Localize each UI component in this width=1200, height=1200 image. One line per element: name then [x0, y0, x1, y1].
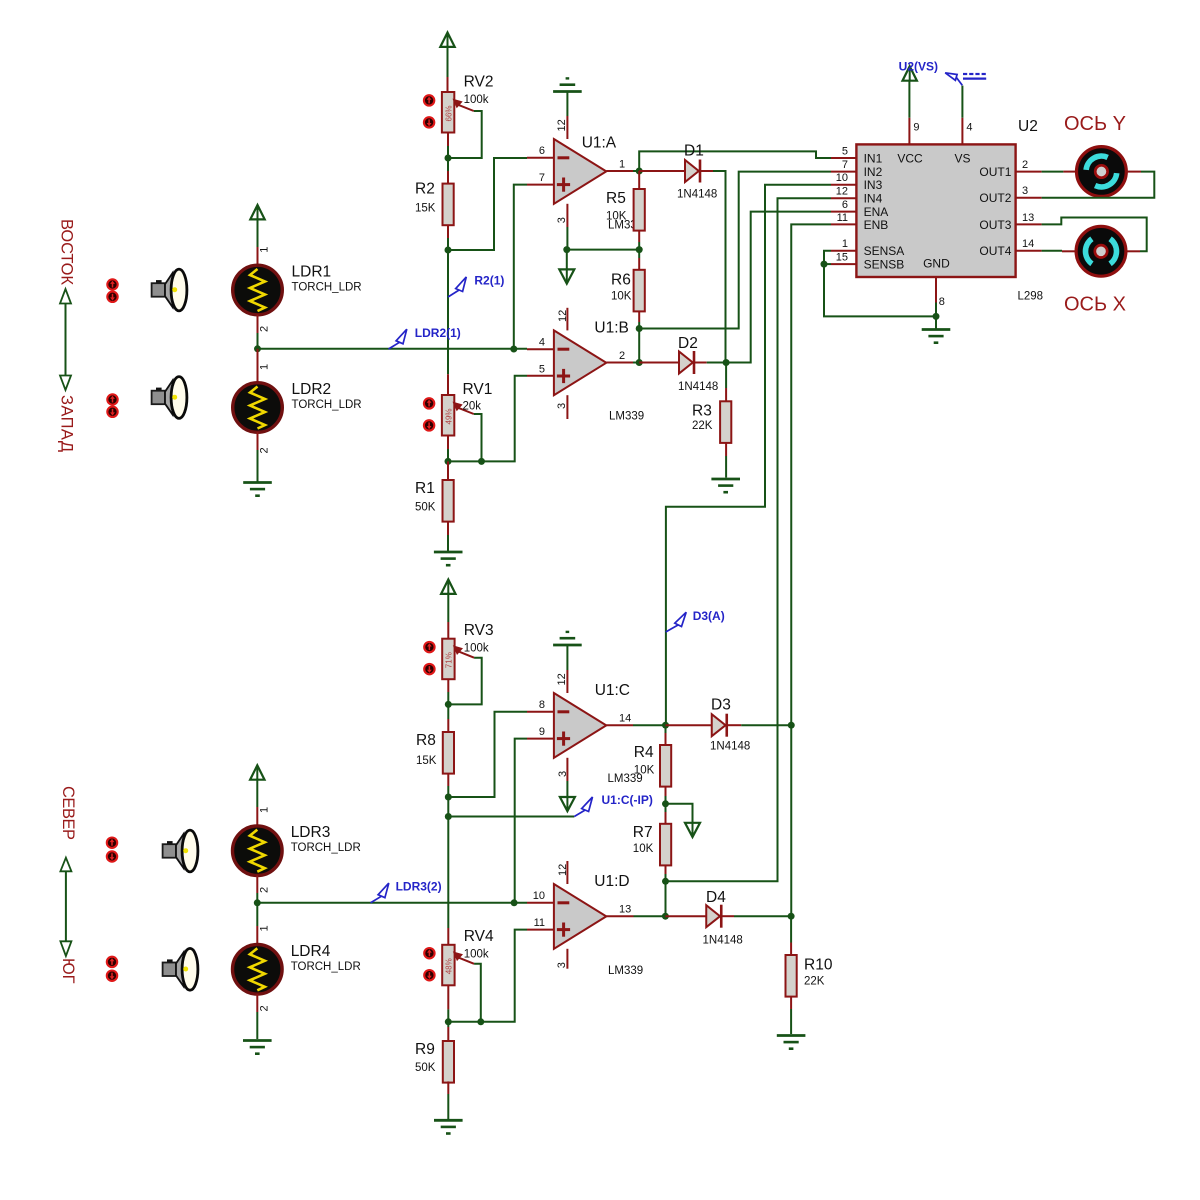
pin U2.4 VS — [961, 118, 963, 145]
pin LDR1.2 — [257, 315, 259, 334]
pin U2 10 stub — [831, 184, 856, 186]
wire U1:C pin9 to LDR node — [515, 739, 527, 903]
svg-text:10K: 10K — [633, 843, 654, 855]
net label U2(VS) — [899, 60, 963, 86]
wire R4 to node — [665, 796, 667, 804]
pin U1:C.3 — [566, 758, 568, 781]
wire D1 cathode to OR node — [713, 171, 726, 363]
pin LDR2.1 — [257, 349, 259, 383]
wire R6 node to U1:B output — [638, 329, 640, 363]
torch lamp for LDR1 — [152, 269, 187, 311]
svg-text:6: 6 — [539, 145, 545, 157]
wire LDR3 top supply — [256, 779, 258, 808]
LDR LDR4 (TORCH_LDR) — [232, 943, 360, 994]
svg-text:4: 4 — [539, 337, 545, 349]
pin number 6 of U2 — [842, 199, 848, 211]
svg-text:U2: U2 — [1018, 118, 1038, 135]
svg-text:R9: R9 — [415, 1041, 435, 1058]
svg-text:15: 15 — [836, 252, 848, 264]
net label D3(A) — [666, 609, 725, 632]
pin number 2 of LDR3 — [259, 887, 271, 893]
pin number 13 of U2 — [1022, 212, 1034, 224]
torch 3 brightness buttons — [107, 838, 117, 862]
svg-text:50K: 50K — [415, 502, 436, 514]
wire node to U1:D pin 11 — [481, 930, 527, 1022]
svg-text:1: 1 — [259, 247, 271, 253]
pin R5.1 — [638, 171, 640, 189]
pin R3.2 — [725, 443, 727, 456]
junction R7 bottom / IN4 net — [662, 878, 669, 885]
svg-text:R7: R7 — [633, 824, 653, 841]
wire node down to RV1 — [447, 250, 449, 374]
pin number 7 of U2 — [842, 159, 848, 171]
pin U1:C.9 stub — [527, 738, 554, 740]
wire IN2 net — [639, 172, 831, 329]
power terminal above RV2 — [440, 33, 454, 47]
torch lamp for LDR3 — [163, 830, 198, 872]
pin D4 cathode — [721, 915, 734, 917]
wire R1 to ground — [447, 535, 449, 551]
pin U2 11 stub — [831, 223, 856, 225]
pin LDR1.1 — [257, 247, 259, 266]
pin number 1 of LDR3 — [259, 807, 271, 813]
svg-text:7: 7 — [842, 159, 848, 171]
svg-text:R2: R2 — [415, 181, 435, 198]
wire R7 node to U1:D output — [665, 881, 667, 916]
svg-text:OUT4: OUT4 — [979, 244, 1011, 258]
svg-text:1N4148: 1N4148 — [678, 381, 718, 393]
pin motor X right — [1126, 250, 1140, 252]
svg-text:VS: VS — [954, 151, 970, 165]
negative rail arrow at R4/R7 node — [685, 823, 700, 837]
pin U2 12 stub — [831, 197, 856, 199]
svg-text:TORCH_LDR: TORCH_LDR — [291, 842, 361, 854]
svg-text:RV1: RV1 — [463, 381, 493, 398]
pin R2.2 — [447, 225, 449, 238]
svg-text:IN2: IN2 — [864, 165, 883, 179]
pin number 3 of U1:B — [556, 403, 568, 409]
pin U2 7 stub — [831, 171, 856, 173]
svg-text:IN3: IN3 — [864, 178, 883, 192]
svg-text:15K: 15K — [415, 203, 436, 215]
wire RV3 to node — [447, 692, 449, 704]
svg-text:50K: 50K — [415, 1062, 436, 1074]
pin D3 anode — [666, 724, 712, 726]
LDR LDR3 (TORCH_LDR) — [232, 824, 360, 876]
svg-text:2: 2 — [259, 887, 271, 893]
wire IN3 net (U1:C output) — [666, 185, 831, 725]
pin U1:C.12 — [566, 670, 568, 693]
wire RV1 to node — [447, 449, 449, 461]
junction LDR divider node — [254, 345, 261, 352]
wire GND pin to ground — [935, 303, 937, 330]
wire out node to R4 — [665, 725, 667, 733]
svg-text:22K: 22K — [804, 976, 825, 988]
svg-text:R6: R6 — [611, 272, 631, 289]
junction RV4/R9 node — [445, 1018, 452, 1025]
svg-text:12: 12 — [557, 864, 569, 876]
wire D3 cathode to ENB net — [741, 724, 791, 726]
svg-text:ЗАПАД: ЗАПАД — [58, 395, 76, 452]
pin RV2.1 — [447, 77, 449, 92]
pin U2.9 VCC — [908, 118, 910, 145]
svg-text:R5: R5 — [606, 190, 626, 207]
pin R2.1 — [447, 171, 449, 184]
svg-text:R1: R1 — [415, 480, 435, 497]
junction D1/D2 OR node — [723, 359, 730, 366]
wire RV3 wiper — [448, 658, 481, 705]
pin U1:A.7 stub — [527, 184, 554, 186]
wire node to R9 — [447, 1022, 449, 1027]
svg-text:10: 10 — [836, 172, 848, 184]
svg-text:3: 3 — [556, 217, 568, 223]
svg-text:ОСЬ Y: ОСЬ Y — [1064, 113, 1126, 135]
pin number 1 of LDR4 — [259, 925, 271, 931]
wire node down to R2 — [447, 158, 449, 171]
pin LDR4.2 — [256, 994, 258, 1012]
svg-text:TORCH_LDR: TORCH_LDR — [292, 282, 362, 294]
pin number 14 of U2 — [1022, 238, 1034, 250]
wire LDR3-LDR4 node — [256, 893, 258, 903]
label LM339 of U1:A (partly hidden) — [608, 220, 643, 232]
wire U1:C pin3 stem — [566, 781, 568, 797]
pin number 11 of U2 — [837, 212, 848, 224]
pin number 9 of U1:C — [539, 726, 545, 738]
wire RV4 node segment — [448, 1021, 481, 1023]
pin R1.2 — [447, 522, 449, 535]
svg-text:1N4148: 1N4148 — [703, 935, 743, 947]
junction R8 bottom (to pin 8) — [445, 794, 452, 801]
wire LDR node to U1:B pin 4 — [258, 348, 528, 350]
pin number 8 of U1:C — [539, 699, 545, 711]
svg-text:49%: 49% — [444, 408, 453, 424]
svg-text:9: 9 — [539, 726, 545, 738]
pin number 1 of LDR1 — [259, 247, 271, 253]
svg-text:RV2: RV2 — [464, 74, 494, 91]
svg-text:SENSA: SENSA — [864, 244, 905, 258]
svg-text:ОСЬ X: ОСЬ X — [1064, 294, 1126, 316]
label LM339 of U1:C — [608, 773, 643, 785]
pin RV4.1 — [447, 928, 449, 945]
svg-text:LDR2: LDR2 — [292, 381, 332, 398]
svg-text:R4: R4 — [634, 744, 654, 761]
wire node to LDR4 — [256, 903, 258, 926]
svg-text:LM339: LM339 — [609, 411, 644, 423]
pin LDR3.1 — [256, 807, 258, 826]
power terminal U2 VCC — [903, 66, 917, 80]
wire R2 to node — [447, 238, 449, 250]
pin number 3 of U1:C — [557, 771, 569, 777]
svg-text:LM339: LM339 — [608, 965, 643, 977]
potentiometer RV4 100k (48%) — [442, 928, 494, 985]
pin U1:C.8 stub — [527, 711, 554, 713]
pin U1:D.3 — [566, 949, 568, 969]
pin D4 anode — [665, 915, 706, 917]
wire R6 to node — [638, 322, 640, 329]
ground below U2 — [922, 330, 951, 343]
svg-text:R3: R3 — [692, 403, 712, 420]
wire U1:A out to junction — [633, 170, 639, 172]
motor Y axis motor — [1077, 147, 1127, 197]
svg-text:2: 2 — [259, 447, 271, 453]
svg-text:1N4148: 1N4148 — [710, 741, 750, 753]
ground below R3 — [711, 479, 740, 492]
svg-text:10K: 10K — [611, 291, 632, 303]
wire OUT1 to motor Y — [1042, 171, 1064, 173]
pin U2 1 stub — [831, 250, 856, 252]
label ЮГ (south) — [59, 958, 77, 984]
pin number 4 of U1:B — [539, 337, 545, 349]
pin U1:B.4 stub — [527, 348, 554, 350]
resistor R5 — [606, 189, 645, 231]
ground terminal above U1:C pin 12 — [553, 632, 582, 645]
pin number 2 of LDR2 — [259, 447, 271, 453]
ground below LDR4 — [243, 1041, 272, 1054]
svg-text:L298: L298 — [1018, 291, 1044, 303]
label СЕВЕР (north) — [59, 786, 77, 840]
LDR LDR2 (TORCH_LDR) — [233, 381, 362, 432]
torch lamp for LDR4 — [163, 948, 198, 990]
wire ref node to U1:A pin 6 — [448, 158, 527, 250]
net label R2(1) — [448, 274, 504, 297]
wire RV4 to node — [447, 1009, 449, 1021]
label LM339 of U1:D — [608, 965, 643, 977]
wire R10 to ground — [790, 1009, 792, 1034]
pin number 3 of U2 — [1022, 185, 1028, 197]
wire R5 to node — [638, 242, 640, 250]
wire R7 to node — [665, 874, 667, 881]
svg-text:TORCH_LDR: TORCH_LDR — [291, 961, 361, 973]
wire U1:A pin7 to LDR node — [514, 185, 527, 349]
svg-text:10K: 10K — [634, 765, 655, 777]
ground below R1 — [434, 552, 463, 565]
svg-text:LDR3(2): LDR3(2) — [396, 880, 442, 894]
pin number 3 of U1:A — [556, 217, 568, 223]
negative rail arrow below U1:A — [559, 269, 574, 283]
pin number 9 of U2 — [913, 122, 919, 134]
pin LDR4.1 — [256, 926, 258, 945]
wire R3 to ground — [725, 456, 727, 478]
svg-text:R2(1): R2(1) — [474, 274, 504, 288]
svg-text:1N4148: 1N4148 — [677, 189, 717, 201]
pin number 2 of U2 — [1022, 159, 1028, 171]
IC U2 L298 body — [856, 118, 1043, 303]
svg-text:7: 7 — [539, 172, 545, 184]
label ОСЬ Y — [1064, 113, 1126, 135]
svg-text:IN4: IN4 — [864, 192, 883, 206]
pin R1.1 — [447, 461, 449, 480]
RV3 increment button — [424, 642, 434, 652]
pin R4.1 — [665, 733, 667, 745]
pin U2 13 stub — [1016, 223, 1042, 225]
wire SENSA — [824, 251, 831, 264]
pin R7.1 — [665, 812, 667, 824]
pin U1:B.12 — [566, 308, 568, 331]
wire R8 to node — [447, 786, 449, 797]
svg-text:OUT2: OUT2 — [979, 191, 1011, 205]
wire VS supply — [961, 86, 963, 118]
diode D1 1N4148 — [677, 143, 717, 201]
pin RV4.2 — [447, 985, 449, 1009]
pin U1:A.3 — [566, 204, 568, 227]
power terminal above RV3 — [441, 580, 455, 594]
pin R9.2 — [447, 1081, 449, 1094]
wire D4 cathode to ENB net — [734, 915, 791, 917]
pin number 12 of U2 — [836, 186, 848, 198]
svg-text:ENB: ENB — [864, 218, 889, 232]
svg-text:LDR4: LDR4 — [291, 943, 331, 960]
RV3 decrement button — [424, 664, 434, 674]
pin U1:D.13 output — [606, 915, 633, 917]
svg-text:2: 2 — [259, 1005, 271, 1011]
pin U1:B.5 stub — [527, 375, 554, 377]
svg-text:5: 5 — [539, 363, 545, 375]
pin number 10 of U1:D — [533, 890, 545, 902]
svg-text:U1:C: U1:C — [595, 682, 630, 699]
svg-text:OUT1: OUT1 — [979, 165, 1011, 179]
junction R5/R6 — [636, 246, 643, 253]
pin U2.8 GND — [935, 277, 937, 303]
svg-text:SENSB: SENSB — [864, 257, 905, 271]
svg-text:LDR1: LDR1 — [292, 264, 332, 281]
wire supply to RV2 — [447, 46, 449, 77]
wire midpoint to rail arrow — [666, 804, 693, 823]
svg-text:11: 11 — [837, 212, 848, 224]
pin U1:A.1 output — [606, 170, 633, 172]
junction LDR node / pin4 row — [510, 346, 517, 353]
pin number 12 of U1:C — [556, 673, 568, 685]
pin U2 15 stub — [831, 263, 856, 265]
svg-text:U1:D: U1:D — [594, 873, 629, 890]
svg-text:10: 10 — [533, 890, 545, 902]
wire pin3 rail to R5/R6 node — [567, 249, 639, 251]
resistor R10 — [786, 955, 833, 997]
pin R10.2 — [790, 997, 792, 1009]
junction RV3/R8 node — [445, 701, 452, 708]
junction U1:B output — [636, 359, 643, 366]
power terminal above LDR3 — [250, 765, 264, 779]
torch 4 brightness buttons — [107, 957, 117, 981]
op-amp comparator U1:A — [554, 135, 617, 204]
svg-text:11: 11 — [534, 917, 545, 929]
pin RV1.1 — [447, 374, 449, 395]
torch lamp for LDR2 — [152, 377, 187, 419]
wire -IP net — [448, 816, 574, 818]
wire U1:B out to junction — [633, 362, 639, 364]
pin U1:B.2 output — [606, 362, 633, 364]
pin D3 cathode — [727, 724, 742, 726]
resistor R9 — [415, 1041, 454, 1083]
resistor R4 — [634, 744, 671, 787]
svg-text:ЮГ: ЮГ — [59, 958, 77, 984]
svg-text:GND: GND — [923, 257, 950, 271]
wire OR node to R3 — [725, 363, 727, 389]
wire LDR2 to ground — [257, 450, 259, 482]
RV4 increment button — [424, 948, 434, 958]
pin number 15 of U2 — [836, 252, 848, 264]
svg-text:LDR3: LDR3 — [291, 824, 331, 841]
diode D4 1N4148 — [703, 889, 743, 947]
wire node to R6 — [638, 250, 640, 258]
pin number 10 of U2 — [836, 172, 848, 184]
junction R2/RV1 reference node — [445, 247, 452, 254]
label ОСЬ X — [1064, 294, 1126, 316]
potentiometer RV3 100k (71%) — [442, 622, 493, 679]
pin D1 anode — [639, 170, 685, 172]
svg-text:12: 12 — [557, 310, 569, 322]
pin R10.1 — [790, 943, 792, 956]
svg-text:D3(A): D3(A) — [693, 609, 725, 623]
pin R8.2 — [447, 774, 449, 786]
svg-text:2: 2 — [619, 350, 625, 362]
pin U1:D.10 stub — [527, 902, 554, 904]
junction R4/R7 midpoint — [662, 800, 669, 807]
svg-text:R10: R10 — [804, 957, 833, 974]
net label U1:C(-IP) — [574, 793, 653, 817]
pin U1:A.6 stub — [527, 157, 554, 159]
svg-text:5: 5 — [842, 145, 848, 157]
svg-text:3: 3 — [1022, 185, 1028, 197]
wire OUT3 to motor X — [1042, 218, 1147, 252]
pin R5.2 — [638, 231, 640, 242]
svg-text:48%: 48% — [445, 958, 454, 974]
svg-text:U2(VS): U2(VS) — [899, 60, 938, 74]
junction bottom LDR node / pin10 row — [511, 899, 518, 906]
RV4 decrement button — [424, 970, 434, 980]
svg-text:D1: D1 — [684, 143, 704, 160]
junction GND node — [933, 313, 940, 320]
svg-text:СЕВЕР: СЕВЕР — [59, 786, 77, 840]
wire node link — [447, 797, 449, 817]
RV2 decrement button — [424, 117, 434, 127]
wire U1:C out to junction — [633, 724, 666, 726]
pin number 14 of U1:C — [619, 712, 631, 724]
pin R4.2 — [665, 787, 667, 796]
ground terminal above U1:A pin 12 — [553, 78, 582, 91]
svg-text:TORCH_LDR: TORCH_LDR — [292, 399, 362, 411]
resistor R7 — [633, 824, 671, 866]
pin number 8 of U2 — [939, 296, 945, 308]
svg-text:2: 2 — [259, 326, 271, 332]
svg-text:D2: D2 — [678, 335, 698, 352]
svg-text:RV4: RV4 — [464, 928, 494, 945]
pin U2 6 stub — [831, 211, 856, 213]
pin U2 3 stub — [1016, 197, 1042, 199]
svg-text:100k: 100k — [464, 949, 489, 961]
svg-text:D3: D3 — [711, 697, 731, 714]
wire U1:A pin3 to rail — [566, 227, 568, 250]
pin number 2 of LDR4 — [259, 1005, 271, 1011]
pin motor Y left — [1063, 171, 1076, 173]
junction RV1/R1 node — [445, 458, 452, 465]
pin number 11 of U1:D — [534, 917, 545, 929]
svg-text:14: 14 — [619, 712, 631, 724]
pin D1 cathode — [700, 170, 713, 172]
resistor R2 — [415, 181, 454, 226]
junction D4 cathode / ENB / R10 — [788, 913, 795, 920]
op-amp comparator U1:B — [554, 320, 629, 396]
pin motor Y right — [1126, 171, 1141, 173]
wire LDR node to U1:D pin 10 — [257, 902, 527, 904]
potentiometer RV2 100k (66%) — [442, 74, 494, 133]
wire sense to ground — [824, 264, 936, 316]
RV2 increment button — [424, 95, 434, 105]
junction RV1 wiper tie — [478, 458, 485, 465]
pin number 1 of U2 — [842, 238, 848, 250]
svg-text:IN1: IN1 — [864, 151, 883, 165]
svg-text:10K: 10K — [606, 211, 627, 223]
svg-text:1: 1 — [259, 364, 271, 370]
